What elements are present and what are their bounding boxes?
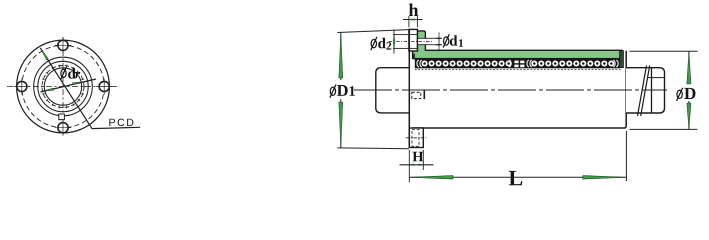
phi-dr arrow left [43, 88, 54, 91]
PCD leader arrowhead [41, 49, 49, 60]
phi-dr arrow right [73, 82, 84, 85]
cylinder body [413, 51, 626, 128]
dim h [403, 16, 423, 27]
shaft break lines [638, 66, 647, 117]
flange left face line [408, 29, 410, 147]
right shaft [626, 68, 665, 113]
flange lower section [409, 128, 423, 148]
flange outer circle [17, 40, 110, 133]
bolt hole right [96, 78, 112, 94]
dim H arrow right [419, 164, 423, 166]
dim L arrow left [409, 176, 453, 180]
shaft end tick [648, 77, 664, 79]
dim phi-d1 [426, 33, 442, 51]
dim H [400, 150, 434, 182]
dim H arrow left [410, 164, 414, 166]
dim phi-D1 arrow bottom [339, 102, 343, 148]
sleeve OD circle [34, 57, 93, 116]
dim phi-D arrow bottom [687, 103, 691, 129]
top hole centerline [389, 41, 434, 43]
dim L [409, 131, 626, 181]
dim phi-D1 [337, 30, 409, 149]
lower hole centerline [406, 137, 427, 139]
strip left notch [413, 54, 415, 59]
flange keyway hidden rect [412, 92, 421, 98]
left shaft [376, 68, 409, 113]
dashed line under band [415, 69, 621, 71]
dim phi-d2 [393, 30, 409, 54]
dim phi-D1 arrow top [339, 32, 343, 78]
label PCD [109, 119, 115, 126]
ball band [415, 59, 620, 69]
PCD leader [40, 48, 140, 129]
keyway square [59, 114, 65, 120]
ball track ticked circle [42, 66, 84, 108]
bolt hole left [14, 78, 30, 94]
center crosshair [7, 86, 120, 88]
flange plate top section [409, 29, 418, 51]
dim phi-D arrow top [687, 51, 691, 84]
PCD dashed circle [22, 45, 104, 127]
dim phi-D [630, 51, 698, 129]
flange step edge at notch [423, 90, 425, 99]
shaft inner line [651, 68, 653, 113]
retainer circle [38, 61, 88, 111]
dim phi-d2 arrow bottom [393, 42, 395, 48]
bolt hole bottom [55, 120, 71, 136]
collar hole gap [417, 38, 426, 44]
dim phi-d2 arrow top [393, 35, 395, 41]
bolt hole top [55, 37, 71, 53]
flange collar (green) [417, 31, 425, 51]
counterbore edges [409, 34, 418, 36]
label phi-dr [60, 67, 80, 80]
dim L arrow right [583, 176, 627, 180]
phi-dr dimension line [41, 79, 97, 92]
band middle dashes [514, 61, 524, 68]
strip right end cap [620, 51, 624, 68]
dim h arrow left [409, 19, 412, 21]
main centerline [354, 89, 667, 91]
hidden counterbore dashed [412, 130, 419, 147]
dim h arrow right [414, 19, 417, 21]
bore circle [44, 68, 81, 105]
ball track radial ticks [41, 65, 86, 109]
green top strip [413, 50, 622, 58]
